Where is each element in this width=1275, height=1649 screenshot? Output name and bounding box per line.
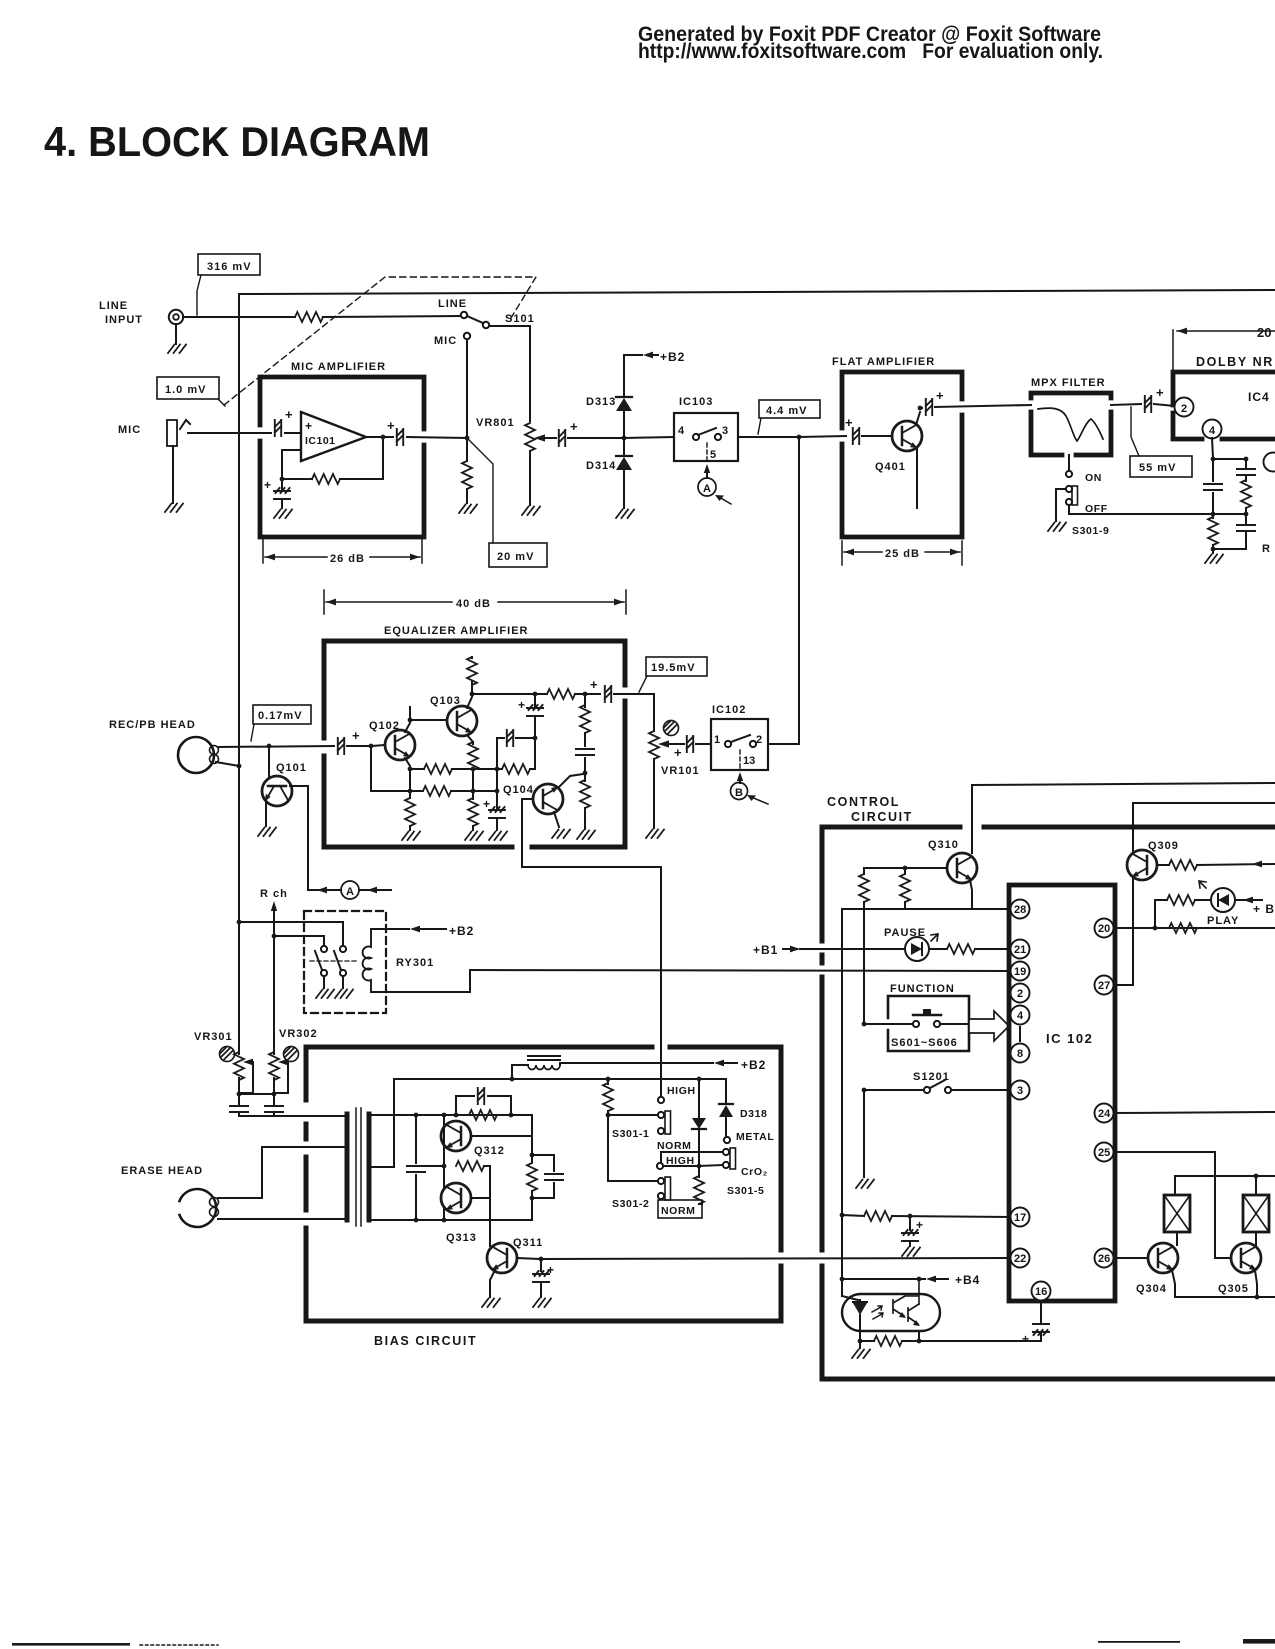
node pin4 net: [1211, 457, 1216, 462]
svg-text:+: +: [1156, 385, 1164, 400]
svg-text:4: 4: [1017, 1010, 1024, 1022]
svg-text:+: +: [936, 388, 944, 403]
wire collector to tank: [531, 1136, 533, 1155]
pin 4 dolby: [1203, 420, 1222, 439]
capacitor C-flat-in: [845, 415, 891, 444]
wire IC102 pin2 to riser: [768, 743, 799, 745]
scan artifact bottom dotted: [140, 1644, 218, 1646]
pin 28: [1011, 900, 1030, 919]
transistor Q104: [503, 784, 563, 814]
svg-text:+B1: +B1: [753, 943, 778, 957]
node rail fbcap left: [454, 1113, 459, 1118]
svg-text:LINE: LINE: [99, 300, 128, 312]
wire tank to bottom rail: [531, 1198, 533, 1220]
node bus/head junction: [237, 764, 242, 769]
wire VR101 to ground: [646, 759, 664, 838]
capacitor C-mic-in: [275, 407, 293, 436]
wire play branch up: [1154, 900, 1156, 928]
svg-text:+: +: [845, 415, 853, 430]
wire head lower to bus: [216, 762, 239, 766]
svg-text:25 dB: 25 dB: [885, 548, 920, 560]
capacitor C-q312fb: [456, 1088, 511, 1115]
resistor R-q103c vertical up: [467, 657, 477, 694]
pin 8: [1011, 1044, 1030, 1063]
svg-text:R: R: [1262, 543, 1271, 555]
resistor R-d1: [1208, 514, 1218, 549]
capacitor C-pin16: [1022, 1301, 1049, 1346]
dimension 40 dB: [324, 590, 626, 614]
svg-text:+: +: [264, 478, 271, 492]
node bus RY tap: [237, 920, 242, 925]
node row2 right: [495, 789, 500, 794]
potentiometer VR301: [234, 1052, 253, 1093]
resistor R-x585 upper: [580, 694, 590, 746]
svg-text:S101: S101: [505, 313, 535, 325]
node resistor s301 top: [606, 1077, 611, 1082]
resistor R-pin20: [1169, 923, 1197, 933]
svg-text:NORM: NORM: [661, 1205, 695, 1217]
wire Q101 emitter to ground: [258, 803, 276, 836]
node Rch junction: [272, 934, 277, 939]
block FUNCTION box: [888, 996, 969, 1051]
node off-line right: [1244, 512, 1249, 517]
svg-text:CONTROL: CONTROL: [827, 795, 900, 809]
svg-text:+: +: [674, 745, 682, 760]
capacitor C-fb polarized: [264, 478, 290, 508]
wire contact to box edge: [940, 1023, 969, 1025]
IC102 main box: [1009, 885, 1115, 1301]
svg-text:26: 26: [1098, 1253, 1110, 1265]
block DOLBY NR box: [1173, 372, 1275, 439]
transistor Q103: [430, 695, 477, 736]
resistor R-play: [1155, 895, 1211, 905]
svg-text:VR801: VR801: [476, 417, 515, 429]
svg-text:27: 27: [1098, 980, 1110, 992]
wire pin4 right branch: [1213, 458, 1246, 460]
wire erase head lower: [218, 1218, 346, 1220]
diode D314: [586, 440, 634, 518]
pin 19: [1011, 962, 1030, 981]
wire pin27 stub: [1114, 984, 1133, 986]
wire Q310 base rail: [864, 868, 947, 874]
wire x535 to row1: [534, 738, 536, 769]
svg-text:RY301: RY301: [396, 957, 434, 969]
resistor R-q309: [1157, 860, 1275, 870]
node row1 left: [408, 767, 413, 772]
feed +B2 arrow top: [624, 350, 685, 364]
resistor R-q312fb: [469, 1110, 497, 1120]
svg-text:+B2: +B2: [660, 350, 685, 364]
contact HIGH S301-1: [658, 1085, 696, 1103]
callout 4.4 mV: [758, 400, 820, 434]
callout 316 mV: [197, 254, 260, 315]
node eq input: [369, 744, 374, 749]
adjust mark VR101: [664, 721, 679, 736]
choke L301: [512, 1056, 560, 1079]
wire resistor to S101 LINE contact: [323, 316, 461, 317]
node play branch: [1153, 926, 1158, 931]
svg-text:IC4: IC4: [1248, 390, 1270, 404]
wire Q313 collector: [471, 1197, 490, 1199]
transistor Q309: [1127, 840, 1179, 880]
callout 1.0 mV: [157, 377, 225, 406]
callout 19.5mV: [639, 657, 707, 692]
node tank bottom: [530, 1196, 535, 1201]
transformer T301: [347, 1108, 369, 1226]
svg-text:Q311: Q311: [513, 1237, 543, 1249]
wire Q103 emitter chain: [467, 735, 478, 791]
resistor R-right vertical: [900, 868, 910, 909]
resistor R-out: [535, 689, 583, 699]
callout 0.17mV: [251, 705, 311, 741]
block arrow to pin4: [969, 1011, 1009, 1041]
node flat-amp input junction: [797, 435, 802, 440]
wire Q103 collector: [467, 697, 472, 708]
resistor R-d2: [1241, 477, 1251, 513]
svg-text:22: 22: [1014, 1253, 1026, 1265]
wire y803 rail: [1133, 803, 1275, 985]
svg-text:S301-5: S301-5: [727, 1185, 764, 1197]
node row1 mid: [495, 767, 500, 772]
ground opto: [852, 1341, 870, 1358]
node pin17 row left: [840, 1213, 845, 1218]
wire vr caps to transformer: [239, 1115, 346, 1117]
svg-text:VR101: VR101: [661, 765, 700, 777]
svg-text:+: +: [285, 407, 293, 422]
svg-text:IC103: IC103: [679, 396, 713, 408]
switch S101: [434, 298, 535, 347]
relay switch contacts: [310, 946, 356, 976]
wire Q304 emitter down: [1172, 1270, 1175, 1297]
node function feed: [862, 1022, 867, 1027]
ground under line jack: [168, 324, 186, 353]
svg-text:0.17mV: 0.17mV: [258, 710, 303, 722]
dashed callout leader for S101 panel: [224, 277, 536, 405]
wire Q311 emitter ground: [482, 1270, 500, 1307]
node x535 top: [533, 692, 538, 697]
capacitor C-coll polarized: [518, 694, 543, 736]
svg-text:HIGH: HIGH: [667, 1085, 696, 1097]
switch S301-2: [612, 1177, 671, 1210]
svg-text:4. BLOCK DIAGRAM: 4. BLOCK DIAGRAM: [44, 118, 430, 165]
svg-text:Q102: Q102: [369, 720, 400, 732]
capacitor C-mic-out: [387, 418, 403, 445]
callout 55 mV: [1130, 407, 1192, 477]
resistor R-s301: [603, 1079, 613, 1115]
svg-text:MIC AMPLIFIER: MIC AMPLIFIER: [291, 361, 386, 373]
svg-text:13: 13: [743, 755, 755, 767]
svg-text:20: 20: [1257, 325, 1271, 340]
svg-text:28: 28: [1014, 904, 1026, 916]
solenoid SL1: [1164, 1195, 1190, 1232]
grounds relay contacts: [316, 976, 353, 998]
node off-line left: [1211, 512, 1216, 517]
resistor R-row1b: [497, 764, 535, 774]
svg-text:25: 25: [1098, 1147, 1110, 1159]
node opto collector feed: [917, 1277, 922, 1282]
svg-text:VR302: VR302: [279, 1028, 318, 1040]
block MPX FILTER box: [1031, 393, 1111, 455]
ground dolby net: [1205, 549, 1223, 563]
transistor Q102: [369, 720, 415, 760]
node VR301 bottom: [237, 1092, 242, 1097]
pin 25: [1095, 1143, 1114, 1162]
wire Q401 emitter: [916, 449, 918, 508]
svg-text:21: 21: [1014, 944, 1026, 956]
resistor R-row2: [371, 786, 495, 796]
svg-text:Q310: Q310: [928, 839, 959, 851]
node tank top: [530, 1153, 535, 1158]
wire Q305 emitter down: [1255, 1270, 1257, 1297]
wire solenoid2 drop: [1255, 1176, 1257, 1195]
pin 3: [1011, 1081, 1030, 1100]
svg-text:S601~S606: S601~S606: [891, 1037, 958, 1049]
capacitor C-dolby-in: [1145, 385, 1175, 412]
wire y785 rail: [972, 783, 1275, 853]
svg-text:A: A: [346, 886, 354, 898]
wire mic jack to amp: [188, 432, 260, 434]
resistor R-pin17: [842, 1211, 1010, 1221]
wire rail corner to collector: [511, 1115, 532, 1136]
svg-text:8: 8: [1017, 1048, 1023, 1060]
svg-text:Q305: Q305: [1218, 1283, 1249, 1295]
svg-text:4: 4: [678, 425, 685, 437]
wire Q102 collector: [405, 723, 410, 732]
resistor R-row1a: [410, 764, 495, 774]
wire Q104 collector ground: [552, 812, 570, 838]
capacitor C-vr302: [265, 1094, 283, 1116]
resistor R-x585 lower: [577, 773, 595, 839]
svg-text:CrO₂: CrO₂: [741, 1166, 768, 1178]
switch S301-1: [608, 1111, 691, 1152]
switch S1201: [864, 1080, 1010, 1093]
wire bus to relay contact2: [239, 922, 343, 945]
capacitor C-eq-in: [338, 728, 360, 754]
transistor Q310: [928, 839, 977, 883]
svg-text:MPX FILTER: MPX FILTER: [1031, 377, 1106, 389]
node VR302 bottom: [272, 1092, 277, 1097]
node s301-1 feed: [606, 1113, 611, 1118]
resistor R-pause: [929, 944, 1010, 954]
capacitor C-x416: [407, 1115, 444, 1220]
wire s301-1 to s301-2: [608, 1115, 657, 1181]
adjust mark VR301: [220, 1047, 235, 1062]
svg-text:REC/PB HEAD: REC/PB HEAD: [109, 719, 196, 731]
node bottom rail x416: [414, 1218, 419, 1223]
node ground-d: [1211, 547, 1216, 552]
curve mpx response: [1038, 408, 1103, 441]
svg-text:20 mV: 20 mV: [497, 551, 534, 563]
diode D318: [719, 1079, 774, 1143]
svg-text:4.4 mV: 4.4 mV: [766, 405, 807, 417]
wire top bus horizontal: [239, 290, 1275, 294]
LED PAUSE: [884, 927, 938, 961]
svg-text:+: +: [1022, 1332, 1029, 1346]
svg-text:A: A: [703, 483, 711, 495]
relay RY301 dashed box: [304, 911, 386, 1013]
transistor Q305: [1218, 1243, 1261, 1295]
pin 16: [1032, 1282, 1051, 1301]
node diode mid top: [697, 1077, 702, 1082]
ground x864: [856, 1090, 874, 1188]
resistor R-fb: [282, 440, 383, 484]
resistor R-q313fb: [456, 1161, 490, 1196]
node Q101 base tap: [267, 744, 272, 749]
node s1201 feed: [862, 1088, 867, 1093]
svg-text:CIRCUIT: CIRCUIT: [851, 810, 913, 824]
pin 24: [1095, 1104, 1114, 1123]
wire erase head upper: [218, 1147, 346, 1198]
wire pin24 row: [1114, 1112, 1275, 1113]
svg-text:Q304: Q304: [1136, 1283, 1167, 1295]
wire Q311 collector: [517, 1258, 539, 1259]
node rail cap column: [414, 1113, 419, 1118]
wire Q101 base: [268, 746, 270, 778]
capacitor C-pin17 polarized: [902, 1216, 923, 1256]
svg-text:S301-1: S301-1: [612, 1128, 649, 1140]
marker B circle: [731, 772, 769, 804]
svg-text:Q103: Q103: [430, 695, 461, 707]
opto coupler PC301: [842, 1279, 940, 1341]
switch S301-5 CrO2: [661, 1148, 768, 1197]
wire Q312 collector: [471, 1135, 532, 1137]
node x535 cap: [533, 736, 538, 741]
potentiometer VR302: [269, 1052, 288, 1093]
node +B4 left: [840, 1277, 845, 1282]
block MIC AMPLIFIER box: [260, 377, 424, 537]
scan artifact bottom left bar: [12, 1643, 130, 1646]
potentiometer VR101: [649, 731, 700, 777]
svg-text:D318: D318: [740, 1108, 768, 1120]
node row2 x473: [471, 789, 476, 794]
svg-text:+ B: + B: [1253, 902, 1275, 916]
marker A circle IC103: [698, 464, 731, 504]
potentiometer VR801: [476, 417, 556, 451]
node Q311 out: [539, 1257, 544, 1262]
capacitor C-vr801: [559, 419, 578, 446]
wire node to IC103: [624, 437, 674, 438]
svg-text:D313: D313: [586, 396, 616, 408]
svg-text:DOLBY NR: DOLBY NR: [1196, 355, 1274, 369]
wire pin19 long run: [470, 970, 1010, 971]
svg-text:55 mV: 55 mV: [1139, 462, 1176, 474]
wire top rail: [369, 1114, 532, 1116]
pin 4: [1011, 1006, 1030, 1025]
svg-text:+: +: [483, 797, 490, 811]
node opamp output: [381, 435, 386, 440]
wire pin20 row: [1114, 927, 1275, 929]
wire function feed: [864, 1023, 913, 1025]
capacitor C-row1 bridge: [497, 730, 535, 769]
relay coil: [363, 929, 371, 992]
node diode junction: [622, 436, 627, 441]
wire pin28 row: [842, 908, 1010, 910]
node rail fbcap right: [509, 1113, 514, 1118]
transistor Q101: [262, 762, 307, 806]
wire solenoid return rail: [1175, 1296, 1275, 1298]
node rail base column: [442, 1113, 447, 1118]
wire opto to pin16: [919, 1331, 1041, 1341]
resistor R-x473 lower: [465, 791, 483, 840]
wire left vertical bus: [238, 294, 240, 1054]
LED PLAY: [1199, 881, 1239, 927]
resistor R-line: [295, 312, 323, 322]
wire base column: [443, 1115, 445, 1220]
wire pin25 route: [1114, 1152, 1231, 1258]
svg-text:40 dB: 40 dB: [456, 598, 491, 610]
svg-text:S301-2: S301-2: [612, 1198, 649, 1210]
pin 2 dolby: [1175, 398, 1194, 417]
stub above Q102 collector: [409, 707, 411, 720]
capacitor C-flat-out: [920, 388, 944, 415]
svg-text:ERASE HEAD: ERASE HEAD: [121, 1165, 203, 1177]
wire pin4 down: [1212, 438, 1213, 458]
node choke tap: [510, 1077, 515, 1082]
pin 17: [1011, 1208, 1030, 1227]
wire NORM loop box: [658, 1200, 702, 1218]
scan artifact bottom right corner: [1243, 1639, 1275, 1644]
svg-text:BIAS CIRCUIT: BIAS CIRCUIT: [374, 1334, 477, 1348]
wire collector row: [472, 693, 532, 695]
svg-text:S301-9: S301-9: [1072, 525, 1109, 537]
node row2 x410: [408, 789, 413, 794]
capacitor C-vr301: [230, 1094, 248, 1116]
wire SL1 to Q304: [1176, 1232, 1178, 1245]
wire Q104 base out of box: [522, 799, 661, 867]
wire Q104 emitter to node: [559, 774, 583, 787]
node Q102 collector: [408, 718, 413, 723]
svg-text:4: 4: [1209, 425, 1216, 437]
wire input node down to row2: [370, 746, 372, 791]
svg-text:3: 3: [1017, 1085, 1023, 1097]
pin partial page edge: [1264, 453, 1275, 472]
wire pin26 to Q304: [1114, 1257, 1148, 1259]
transistor Q313: [441, 1183, 477, 1244]
wire SL2 to Q305: [1255, 1232, 1257, 1245]
rec/pb head symbol: [178, 737, 219, 773]
block EQUALIZER box: [324, 641, 625, 847]
diode D-center: [692, 1079, 706, 1165]
node bottom rail x444: [442, 1218, 447, 1223]
svg-text:METAL: METAL: [736, 1131, 774, 1143]
svg-text:FLAT AMPLIFIER: FLAT AMPLIFIER: [832, 356, 935, 368]
wire opamp output: [366, 436, 393, 438]
svg-text:Q309: Q309: [1148, 840, 1179, 852]
svg-text:PLAY: PLAY: [1207, 915, 1239, 927]
svg-text:1: 1: [714, 734, 720, 746]
capacitor C-x497 polarized: [483, 769, 507, 840]
pin 21: [1011, 940, 1030, 959]
svg-text:IC102: IC102: [712, 704, 746, 716]
capacitor C-eq-out: [585, 677, 654, 702]
node opto emitter: [858, 1339, 863, 1344]
svg-text:5: 5: [710, 449, 716, 461]
erase head symbol: [180, 1189, 219, 1227]
capacitor C-ic102in: [687, 736, 711, 752]
svg-text:19: 19: [1014, 966, 1026, 978]
svg-text:26 dB: 26 dB: [330, 553, 365, 565]
svg-text:VR301: VR301: [194, 1031, 233, 1043]
wire cap to diode node: [568, 437, 622, 439]
node Q401 collector: [918, 406, 923, 411]
capacitor C-x585: [576, 749, 594, 772]
wire hv rail: [394, 1078, 726, 1080]
resistor R-norm: [694, 1166, 704, 1204]
svg-text:20: 20: [1098, 923, 1110, 935]
wire Q310 collector to pin28: [970, 880, 1010, 909]
capacitor C-q311 polarized: [533, 1259, 554, 1307]
svg-text:2: 2: [1181, 403, 1187, 415]
